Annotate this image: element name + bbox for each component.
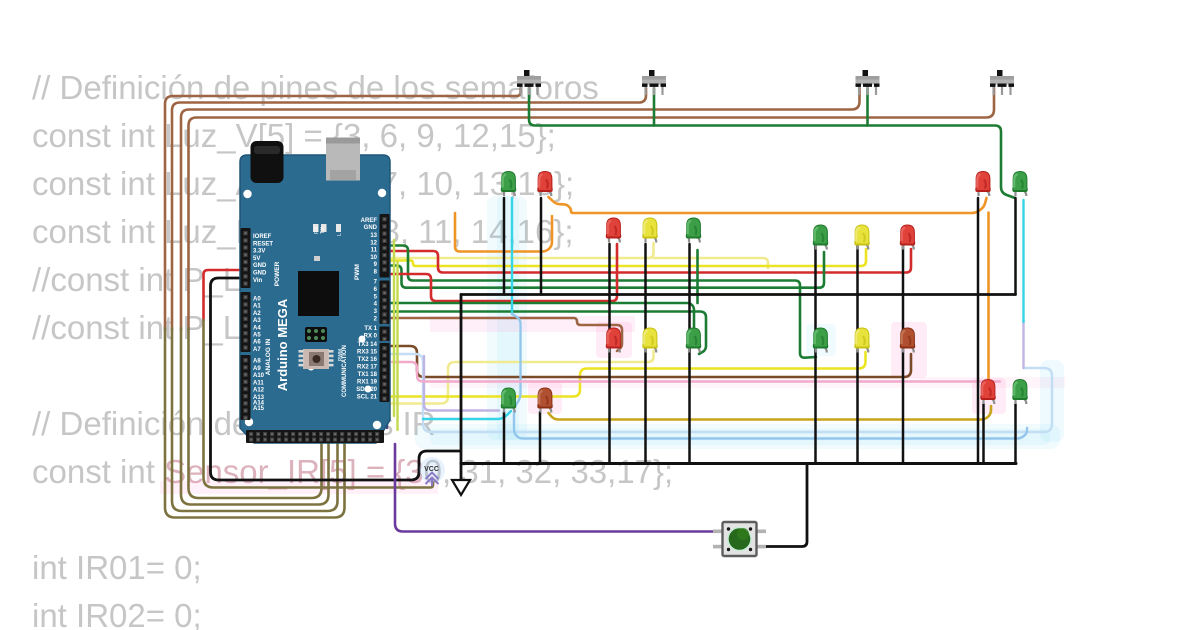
svg-text:Arduino MEGA: Arduino MEGA xyxy=(275,298,290,391)
slide switch SW1 (IR01) xyxy=(517,70,541,95)
USB connector xyxy=(326,138,360,181)
svg-text:A2: A2 xyxy=(253,311,261,317)
svg-text:3.3V: 3.3V xyxy=(253,249,265,255)
wire lime pin A xyxy=(393,240,395,416)
wire black row1R-R cath xyxy=(977,198,980,464)
wire green row2L stub xyxy=(696,250,699,303)
wire green pin10 xyxy=(391,246,816,358)
LED D8 row2 green right (green) xyxy=(813,225,828,250)
wire black link buses xyxy=(460,295,463,480)
glow cyan horizontal band xyxy=(415,424,1060,449)
wire green S2 stub xyxy=(653,88,656,126)
glow pink box LED row4 right red xyxy=(972,378,1006,414)
wire cyan chain row1L-row4L green xyxy=(511,198,513,314)
wire lavender right xyxy=(1022,320,1024,368)
wire olive loop 2 xyxy=(172,328,338,511)
svg-text:A7: A7 xyxy=(253,347,261,353)
svg-text:TX1 18: TX1 18 xyxy=(358,372,378,378)
wire black GND left xyxy=(211,278,461,480)
LED D13 row3 green (green) xyxy=(686,328,701,353)
wire lavender near board xyxy=(424,356,499,411)
svg-text:TX: TX xyxy=(320,227,326,234)
right header xyxy=(380,214,390,278)
glow cyan box LED row3 right green xyxy=(806,324,836,356)
svg-text:RX1 19: RX1 19 xyxy=(357,380,378,386)
wire black bus upper xyxy=(461,293,1016,296)
wire olive loop 3 xyxy=(181,328,329,505)
svg-text:11: 11 xyxy=(371,248,378,254)
svg-text:VCC: VCC xyxy=(424,466,439,473)
svg-text:GND: GND xyxy=(364,225,378,231)
svg-text:SDA 20: SDA 20 xyxy=(356,387,377,393)
wire gold row4 chain xyxy=(549,406,992,420)
wire black col c4 xyxy=(814,244,817,464)
wire olive chain VCC xyxy=(204,320,434,488)
mounting holes xyxy=(243,190,251,198)
svg-text:GND: GND xyxy=(253,263,267,269)
wire orange right vert xyxy=(987,213,990,381)
wire purple button xyxy=(395,444,722,532)
indicator LEDs xyxy=(313,224,319,232)
wire yellow row3R xyxy=(391,352,866,397)
wire black col c1 xyxy=(608,244,611,464)
svg-text:A10: A10 xyxy=(253,373,265,379)
wire green pin7 xyxy=(391,303,694,330)
LED D1 row1 green (green) xyxy=(501,172,516,197)
wire lightblue chain lower xyxy=(512,314,521,406)
wire black row4 r4c xyxy=(982,404,985,464)
svg-text:A9: A9 xyxy=(253,366,261,372)
wire red pin8 xyxy=(391,244,617,301)
wire black row1L-R cath xyxy=(540,198,543,295)
svg-text:A12: A12 xyxy=(253,388,265,394)
slide switch SW3 (IR03) xyxy=(856,70,880,95)
GND symbol xyxy=(452,480,470,495)
LED D2 row1 red (red) xyxy=(537,172,552,197)
wire brown S3-sig xyxy=(181,88,860,330)
slide switch SW2 (IR02) xyxy=(642,70,666,95)
LED D3 row1 red right (red) xyxy=(975,172,990,197)
wire black row1L-G cath xyxy=(503,198,506,295)
MCU chip xyxy=(298,271,339,316)
LED D6 row2 yellow (yellow) xyxy=(642,218,657,243)
wire green row3L hook xyxy=(392,312,706,355)
svg-text:ANALOG IN: ANALOG IN xyxy=(265,338,272,375)
VCC symbol xyxy=(419,457,445,483)
svg-text:A4: A4 xyxy=(253,325,261,331)
glow pink box LED row4 left red xyxy=(528,382,562,414)
wire black col c5 xyxy=(856,244,859,464)
slide switch SW4 (IR04) xyxy=(990,70,1014,95)
svg-text:A0: A0 xyxy=(253,297,261,303)
wire green switch bus xyxy=(529,88,1015,198)
glow pink box LED row3 left red xyxy=(596,322,632,358)
svg-text:TX3 14: TX3 14 xyxy=(358,342,378,348)
svg-text:SCL 21: SCL 21 xyxy=(357,395,378,401)
svg-text:GND: GND xyxy=(253,271,267,277)
svg-text:AREF: AREF xyxy=(361,218,378,224)
svg-text:12: 12 xyxy=(370,240,377,246)
LED D20 row4 green right (green) xyxy=(1012,380,1027,405)
wire red pin11 xyxy=(391,249,911,273)
wire lightblue long xyxy=(514,412,1027,439)
LED D19 row4 red right (red) xyxy=(980,380,995,405)
wire black col c3 xyxy=(688,244,691,464)
wire black button xyxy=(764,464,807,547)
glow cyan vertical (selected wire) xyxy=(487,196,527,440)
wire yellow pin12 xyxy=(391,249,866,266)
wire orange left piece xyxy=(455,213,552,252)
LED D7 row2 green (green) xyxy=(686,218,701,243)
wire green pin9 xyxy=(391,252,824,288)
svg-text:COMMUNICATION: COMMUNICATION xyxy=(342,345,348,397)
svg-text:13: 13 xyxy=(370,233,377,239)
svg-text:A8: A8 xyxy=(253,359,261,365)
LED D4 row1 green right (green) xyxy=(1012,172,1027,197)
LED D14 row3 green right (green) xyxy=(813,328,828,353)
wire brown S1-sig xyxy=(165,88,521,330)
svg-text:L: L xyxy=(337,233,343,236)
svg-text:A11: A11 xyxy=(253,380,264,386)
LED D12 row3 yellow (yellow) xyxy=(642,328,657,353)
svg-text:RESET: RESET xyxy=(253,241,273,247)
LED D5 row2 red (red) xyxy=(606,218,621,243)
svg-text:A6: A6 xyxy=(253,340,261,346)
wire brown S2-sig xyxy=(172,88,646,330)
power jack xyxy=(251,141,284,183)
wire brown S4-sig xyxy=(189,88,995,330)
wire black row4 r4b xyxy=(539,412,542,464)
svg-text:5V: 5V xyxy=(253,256,260,262)
svg-text:IOREF: IOREF xyxy=(253,234,272,240)
wire black row1R-G cath xyxy=(1014,198,1017,295)
LED D16 row3 red right (darkred) xyxy=(900,328,915,353)
wire black col c2 xyxy=(644,244,647,464)
svg-text:RX: RX xyxy=(314,226,320,234)
wire black col c6 xyxy=(902,244,905,464)
pushbutton B1 xyxy=(713,522,766,556)
wire brown pin6 xyxy=(391,318,622,351)
svg-text:RX 0: RX 0 xyxy=(364,334,378,340)
svg-text:A15: A15 xyxy=(253,406,265,412)
LED D18 row4 red (darkred) xyxy=(537,388,552,413)
svg-text:10: 10 xyxy=(370,255,377,261)
LED D9 row2 yellow right (yellow) xyxy=(854,225,869,250)
wire lightblue RX3 xyxy=(391,354,1052,432)
wire orange row1 xyxy=(549,197,987,213)
wire paleyellow row3L xyxy=(391,351,654,404)
LED D10 row2 red right (red) xyxy=(900,225,915,250)
wire cyan bottom xyxy=(423,411,511,419)
svg-text:A5: A5 xyxy=(253,333,261,339)
wire pink TX2 xyxy=(392,362,1000,382)
LED D17 row4 green (green) xyxy=(501,388,516,413)
svg-text:TX 1: TX 1 xyxy=(364,326,377,332)
left header xyxy=(241,228,251,288)
wire lime pin B xyxy=(396,262,398,430)
svg-text:POWER: POWER xyxy=(274,261,281,286)
wire olive loop 4 xyxy=(189,328,322,498)
svg-text:A1: A1 xyxy=(253,304,261,310)
Arduino Mega board U1 xyxy=(240,138,390,444)
LED D11 row3 red (red) xyxy=(606,328,621,353)
wire black row4 r4d xyxy=(1014,404,1017,464)
wire cyan row1R green xyxy=(1022,200,1024,322)
glow pink band lower xyxy=(430,377,1065,388)
svg-text:PWM: PWM xyxy=(354,264,361,280)
svg-text:TX2 16: TX2 16 xyxy=(358,357,378,363)
wire paleyellow pin13 xyxy=(391,243,654,258)
wire red 5V xyxy=(204,270,249,320)
bottom header xyxy=(246,430,384,443)
wire green S3 stub xyxy=(866,88,869,126)
LED D15 row3 yellow right (yellow) xyxy=(854,328,869,353)
glow pink band VCC wire xyxy=(160,481,438,494)
USB-serial chip xyxy=(299,349,334,369)
wire black bus lower xyxy=(461,462,1016,465)
ISP header xyxy=(305,327,327,342)
wire indigo stub xyxy=(386,352,388,428)
glow pink band upper xyxy=(430,316,635,332)
svg-text:A3: A3 xyxy=(253,318,261,324)
wire olive loop 1 xyxy=(165,328,345,518)
svg-text:Vin: Vin xyxy=(253,278,263,284)
glow pink box LED row3 right red xyxy=(891,322,927,378)
wire paleyellow tail xyxy=(654,258,769,268)
svg-text:RX3 15: RX3 15 xyxy=(357,350,378,356)
wire black row4 r4a xyxy=(503,412,506,464)
wire darkbrown TX3 xyxy=(391,346,911,377)
svg-text:RX2 17: RX2 17 xyxy=(357,365,378,371)
